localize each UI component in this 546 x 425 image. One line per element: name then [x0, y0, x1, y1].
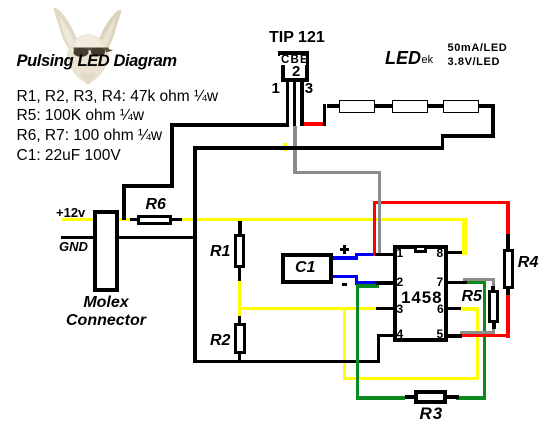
wire black from transistor pin1 horizontal: [170, 123, 289, 127]
label +12v: [56, 205, 85, 220]
resistor R2 body: [234, 323, 245, 354]
op-amp pin number 7: [437, 275, 444, 289]
LED D1: [339, 100, 375, 113]
transistor label 1: [272, 80, 280, 97]
capacitor C1 body: [281, 253, 333, 284]
yellow dash near node (283,146): [283, 143, 287, 151]
label 50mA/LED: [448, 42, 508, 54]
op-amp pin 1 stub: [375, 253, 394, 256]
wire red output vertical at pin1: [373, 201, 376, 256]
wire blue C1 plus horizontal: [333, 256, 358, 259]
wire black LED feed vertical: [323, 104, 327, 126]
op-amp pin number 2: [397, 275, 404, 289]
label R2: [210, 332, 230, 350]
label LED ek: [385, 48, 421, 69]
resistor R4 body: [503, 249, 514, 289]
wire gray R5 bottom to pin5: [460, 331, 496, 334]
wire gray R5 top vertical: [492, 278, 495, 287]
resistor R1 top lead: [238, 221, 242, 235]
wire gray pin7 to R5 top: [463, 278, 495, 281]
wire black GND stub left: [61, 236, 93, 240]
wire gray horizontal: [293, 171, 381, 175]
resistor R4 top lead: [506, 234, 510, 249]
resistor R2 top lead: [238, 316, 242, 324]
label R3: [420, 404, 444, 424]
op-amp pin 8 stub: [448, 251, 464, 254]
wire yellow drop to pin 8: [462, 218, 467, 255]
resistor R2 bottom lead: [238, 354, 242, 363]
wire yellow vertical down from pin3 line: [343, 308, 346, 380]
wire black top ground horizontal: [193, 146, 444, 150]
op-amp pin 4 stub: [377, 334, 393, 337]
resistor R5 body: [488, 290, 499, 322]
op-amp pin 6 stub: [448, 307, 461, 311]
wire green right vertical: [483, 281, 486, 400]
wire red LED feed segment: [304, 122, 325, 126]
op-amp pin number 5: [437, 327, 444, 341]
wire black vertical x172: [170, 123, 174, 189]
wire blue minus to pin2: [355, 281, 378, 284]
label plus: [340, 248, 349, 251]
label R1: [210, 243, 230, 261]
label R5: [462, 288, 482, 306]
wire green from R3 right: [456, 396, 483, 399]
op-amp pin 2 stub: [376, 281, 393, 284]
wire blue C1 minus horizontal: [333, 275, 358, 278]
wire yellow vertical up to pin6: [476, 309, 479, 381]
LED D2: [392, 100, 428, 113]
label Molex Connector: [66, 294, 146, 330]
label R6: [146, 196, 166, 214]
op-amp pin number 8: [437, 246, 444, 260]
label R4: [518, 254, 539, 272]
wire black LED2-LED3: [428, 104, 443, 108]
wire black pin4 drop vertical: [377, 334, 380, 364]
wire black GND to rail: [119, 236, 197, 240]
op-amp notch: [414, 248, 427, 253]
resistor R5 top lead: [491, 286, 495, 291]
wire gray vertical to pin1: [378, 171, 381, 257]
wire blue plus step vertical: [355, 253, 358, 260]
wire green under pin2 junction: [359, 284, 380, 287]
transistor pin 2 label: [292, 63, 300, 80]
transistor label 3: [305, 80, 313, 97]
resistor R3 body: [414, 390, 447, 404]
resistor R3 right lead: [447, 395, 459, 399]
wire red top horizontal: [373, 201, 510, 204]
LED D3: [443, 100, 479, 113]
resistor R1 bottom lead: [238, 268, 242, 281]
wire blue plus to pin1: [355, 253, 378, 256]
resistor R5 bottom lead: [492, 323, 495, 329]
label minus: [342, 283, 348, 287]
title text "Pulsing LED Diagram": [17, 52, 177, 71]
wire black vertical to +12v junction: [122, 184, 126, 219]
wire yellow pin3 horizontal: [239, 307, 377, 310]
wire yellow pin6 horizontal: [461, 307, 479, 310]
op-amp pin number 6: [437, 302, 444, 316]
wire black LED return horizontal: [441, 134, 495, 138]
op-amp pin number 3: [397, 302, 404, 316]
wire gray R5 bottom vertical: [492, 327, 495, 332]
transistor pin labels CBE: [280, 55, 306, 65]
resistor R6 right lead: [172, 218, 182, 221]
wire green to R3 left: [356, 396, 405, 399]
wire black horizontal y186: [122, 184, 174, 188]
label 1458: [401, 288, 442, 308]
wire black LED3 right: [479, 104, 494, 108]
label TIP 121: [269, 29, 325, 47]
op-amp pin number 4: [397, 327, 404, 341]
wire yellow bottom horizontal: [343, 377, 479, 380]
wire black LED return vertical 2: [491, 104, 495, 138]
resistor R6 left lead: [130, 218, 138, 221]
resistor R3 left lead: [405, 395, 414, 399]
label 3.8V/LED: [448, 56, 501, 68]
transistor leg 2: [293, 82, 296, 126]
op-amp pin 5 stub: [448, 334, 462, 338]
transistor leg 3: [300, 82, 303, 126]
transistor Q1 TIP121 tab: [278, 51, 309, 56]
wire +12v yellow rail: [62, 218, 467, 221]
op-amp pin number 1: [397, 246, 404, 260]
wire blue minus step vertical: [355, 275, 358, 285]
wire red R4 bottom vertical: [506, 295, 510, 338]
wire black LED return vertical 1: [441, 134, 445, 150]
wire red drop to R4 top: [506, 201, 510, 235]
Molex connector body: [93, 210, 119, 291]
transistor leg 1: [286, 82, 289, 127]
op-amp pin 3 stub: [376, 307, 393, 311]
op-amp U1 1458 body: [393, 245, 448, 343]
wire black LED feed to LED1: [327, 104, 339, 108]
resistor R4 bottom lead: [506, 289, 510, 296]
wire yellow R1-R2 junction vertical: [238, 280, 241, 318]
resistor R6 body: [137, 215, 172, 225]
wire red to pin5 horizontal: [462, 334, 510, 337]
op-amp pin 7 stub: [448, 281, 467, 284]
logo rabbit mascot: [40, 4, 140, 104]
transistor Q1 TIP121 body: [281, 51, 309, 82]
wire black LED1-LED2: [375, 104, 393, 108]
wire green pin7 horizontal: [467, 281, 486, 284]
label GND: [59, 239, 88, 254]
wire gray base leg vertical: [293, 126, 297, 174]
wire green left vertical: [356, 284, 359, 399]
label C1: [295, 259, 315, 277]
wire black left ground rail vertical: [193, 146, 197, 363]
wire black bottom ground rail: [193, 360, 380, 364]
resistor R1 body: [234, 234, 244, 268]
parts list text: [17, 87, 219, 166]
